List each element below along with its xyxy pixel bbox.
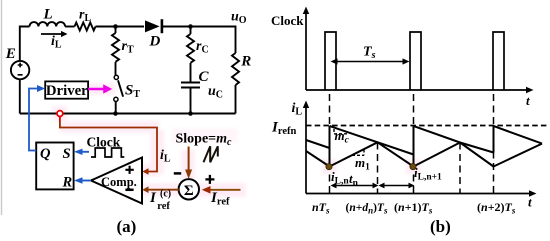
clock y-axis (306, 12, 528, 90)
dashed vertical at (n+2)Ts (493, 94, 495, 194)
inductor current waveform (306, 142, 542, 166)
svg-text:C: C (199, 69, 210, 85)
tooth 0 (partial) (306, 140, 330, 148)
resistor rC (187, 34, 194, 63)
clock x-axis arrowhead (526, 87, 534, 93)
rise m1 cycle 3 (494, 144, 543, 167)
fall m2 cycle 2 (460, 143, 494, 167)
diode D (145, 19, 162, 33)
sawtooth jump at (n+1)Ts (413, 126, 415, 167)
svg-text:(a): (a) (117, 217, 137, 236)
resistor R (232, 53, 239, 85)
svg-text:Slope=mc: Slope=mc (176, 131, 233, 148)
rise m1 cycle 2 (414, 143, 461, 167)
Ts interval double arrow (331, 58, 410, 64)
blue arrow: clock into S (74, 149, 89, 155)
iL x-axis arrowhead (529, 190, 537, 196)
dark red wire: node down, right, down to comparator + (60, 116, 157, 171)
dashed vertical at (n+dn)Ts (377, 143, 379, 194)
arrow: sigma output into comparator - input (142, 186, 179, 193)
svg-text:(c): (c) (160, 189, 171, 200)
inductor L (30, 22, 66, 26)
dashed Irefn line (306, 125, 547, 127)
fall m2 cycle 1 (378, 142, 414, 166)
slope ramp arrow into sigma (185, 147, 192, 179)
blue arrowhead into Driver (37, 85, 45, 92)
resistor rT (112, 33, 119, 62)
mc slope indicator (334, 129, 348, 134)
capacitor C plates (181, 83, 200, 88)
wire: between L and rL (65, 26, 74, 28)
svg-text:Clock: Clock (87, 134, 121, 149)
svg-text:Q: Q (40, 146, 51, 162)
svg-text:ref: ref (157, 201, 170, 212)
clock pulse 2 (410, 32, 421, 90)
svg-text:Driver: Driver (46, 83, 88, 99)
sawtooth compensation ramp teeth (306, 126, 542, 167)
grey page fold line at left edge (1, 0, 3, 215)
svg-text:iL: iL (292, 101, 303, 118)
wire: bottom rail (20, 113, 236, 115)
svg-text:m1: m1 (355, 155, 370, 173)
wire: rT to switch top contact (115, 62, 117, 75)
svg-text:E: E (5, 46, 16, 62)
svg-text:I: I (149, 190, 157, 206)
blue arrow: comparator output into R (74, 177, 91, 183)
wire: C to bottom rail (190, 88, 192, 114)
wire: top node to rC (190, 27, 192, 35)
dashed vertical at (n+1)Ts (413, 94, 415, 194)
svg-text:rL: rL (79, 8, 91, 25)
wire: rL to diode (96, 26, 145, 28)
tooth 2 (414, 126, 494, 153)
red node on bottom rail (57, 111, 63, 117)
svg-text:mc: mc (335, 128, 350, 146)
tooth 3 (494, 126, 543, 144)
svg-text:iL: iL (160, 148, 171, 165)
svg-text:tn: tn (349, 171, 359, 189)
svg-text:uO: uO (231, 10, 247, 27)
wire: switch bottom contact to bottom rail (115, 102, 117, 114)
clock y-axis arrowhead (303, 7, 309, 15)
magenta arrow: Driver to switch (88, 84, 112, 93)
resistor rL (75, 23, 96, 31)
clock waveform glyph (91, 148, 124, 157)
svg-text:D: D (149, 34, 161, 50)
svg-text:rC: rC (196, 39, 209, 56)
svg-text:iL: iL (51, 34, 62, 51)
svg-text:Irefn: Irefn (271, 120, 296, 138)
voltage source E (11, 61, 29, 79)
wire: left rail below source E (19, 79, 21, 113)
svg-text:(b): (b) (430, 217, 451, 236)
flip-flop box (36, 143, 73, 191)
svg-text:Clock: Clock (271, 13, 304, 28)
rise m1 cycle 1 (330, 142, 378, 166)
m1 slope indicator (352, 150, 364, 156)
blue wire: Q output to Driver (29, 89, 38, 151)
tooth 1 (330, 126, 414, 155)
sampled dot iLn+1 (410, 164, 416, 170)
dashed vertical at second peak (459, 143, 461, 194)
svg-text:ST: ST (125, 83, 140, 101)
switch blade (118, 80, 123, 96)
falling segment entering from axis (306, 151, 330, 167)
iL graph y-axis (306, 106, 531, 194)
svg-text:uC: uC (208, 84, 223, 101)
wire: rC to capacitor C (190, 63, 192, 82)
sawtooth jump at nTs (329, 126, 331, 167)
wire: top rail left segment (20, 27, 30, 62)
wire: top node to rT (115, 27, 117, 34)
clock pulse 1 (325, 32, 336, 90)
svg-text:Comp.: Comp. (101, 175, 137, 189)
dashed vertical at nTs (329, 94, 331, 194)
svg-text:rT: rT (122, 39, 134, 56)
svg-text:iL,n: iL,n (331, 169, 349, 187)
svg-text:(n+1)Ts: (n+1)Ts (394, 200, 433, 216)
svg-text:Ts: Ts (363, 45, 376, 62)
arrow: Iref into sigma (202, 186, 241, 194)
svg-text:S: S (63, 146, 71, 162)
svg-text:nTs: nTs (312, 200, 330, 216)
comparator U1 (91, 158, 142, 204)
sawtooth icon (204, 146, 218, 162)
sawtooth jump at (n+2)Ts (493, 126, 495, 153)
switch ST (114, 75, 123, 101)
Driver box (45, 81, 88, 98)
current arrow iL (41, 31, 68, 37)
svg-text:R: R (62, 175, 73, 191)
clock pulse 3 (493, 32, 504, 90)
svg-text:Σ: Σ (184, 183, 194, 199)
svg-text:L: L (43, 7, 53, 23)
svg-text:t: t (528, 195, 532, 210)
wire: R bottom to bottom rail (235, 85, 237, 114)
junction node dots (113, 24, 193, 116)
svg-text:R: R (240, 53, 251, 69)
jpeg pink halos (decorative) (53, 83, 421, 197)
summer sigma (174, 173, 215, 199)
svg-text:(n+2)Ts: (n+2)Ts (477, 200, 516, 216)
sampled dot iLn (326, 164, 332, 170)
svg-text:t: t (526, 93, 530, 108)
iL y-axis arrowhead (303, 101, 309, 109)
wire: diode to top-right corner, down to R (163, 27, 236, 54)
svg-text:(n+dn)Ts: (n+dn)Ts (346, 202, 388, 216)
tn interval arrows (331, 183, 415, 189)
arrowhead into comparator + input (142, 168, 148, 175)
